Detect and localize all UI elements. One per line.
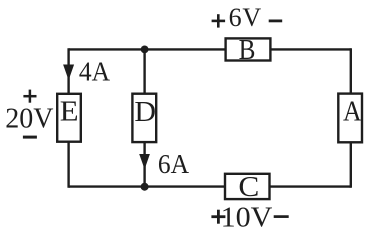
svg-text:4A: 4A [79, 57, 110, 87]
polarity minus left of E [23, 136, 37, 139]
svg-text:C: C [238, 172, 259, 202]
element D box on middle branch [132, 94, 156, 142]
current arrow 4A on left branch [63, 65, 74, 81]
polarity plus left of E [23, 90, 36, 103]
element B box on top rail [226, 38, 271, 60]
svg-text:A: A [343, 96, 362, 127]
wire middle branch [143, 49, 145, 186]
polarity minus above B [269, 19, 283, 22]
svg-text:6V: 6V [229, 3, 262, 32]
wire right branch [350, 48, 352, 188]
wire top rail [69, 48, 351, 50]
polarity minus below C [274, 215, 289, 218]
junction dot top node [141, 46, 149, 54]
element C box on bottom rail [225, 174, 270, 199]
svg-text:B: B [239, 34, 256, 66]
svg-text:E: E [60, 97, 79, 127]
current arrow 6A on middle branch [139, 154, 150, 169]
junction dot bottom node [141, 183, 149, 191]
svg-text:D: D [134, 97, 156, 128]
polarity plus above B [212, 14, 226, 27]
svg-text:6A: 6A [158, 149, 189, 179]
wire left branch [67, 48, 69, 188]
wire bottom rail [69, 185, 351, 187]
element E box on left branch (source) [57, 94, 81, 142]
element A box on right branch [338, 94, 362, 143]
polarity plus below C [211, 210, 225, 224]
svg-text:10V: 10V [221, 202, 273, 233]
svg-text:20V: 20V [5, 104, 53, 135]
